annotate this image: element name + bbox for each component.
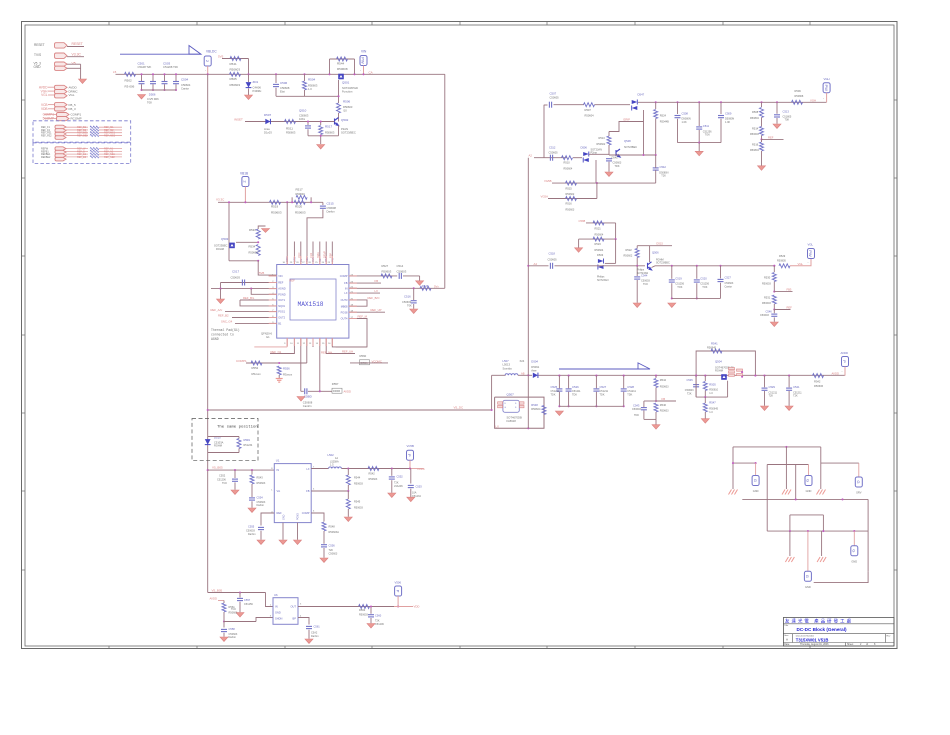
wire pin16 (332, 338, 367, 347)
capacitor C511 (696, 127, 702, 129)
wire A4 to Q506 (598, 265, 646, 267)
svg-text:Elat: Elat (280, 89, 285, 93)
wire R545 top (347, 491, 349, 499)
svg-text:A4: A4 (534, 262, 538, 266)
ground (817, 557, 826, 562)
node junction (785, 446, 787, 448)
ground (231, 490, 239, 495)
transistor Q502 (335, 118, 339, 126)
node junction (795, 498, 797, 500)
svg-text:C516: C516 (404, 295, 411, 299)
svg-text:R5xxxx: R5xxxx (283, 372, 293, 376)
wire to U503 IN (266, 593, 274, 607)
svg-text:Q504: Q504 (715, 360, 722, 364)
pin stub (269, 305, 277, 307)
wire ref (66, 148, 89, 150)
node junction (228, 201, 230, 203)
wire 5COMP (44, 117, 57, 119)
svg-text:C555: C555 (248, 525, 255, 529)
svg-text:R541: R541 (230, 62, 238, 66)
wire R508-R514 (761, 118, 763, 127)
svg-text:MAX1518: MAX1518 (298, 301, 324, 308)
wire c543 link (644, 400, 656, 402)
svg-text:R544: R544 (660, 378, 667, 382)
node junction (615, 238, 617, 240)
wire VGH (48, 90, 55, 92)
resistor R544 (337, 57, 348, 61)
pin stub (269, 288, 277, 290)
svg-text:GND: GND (806, 489, 812, 493)
pin stub (349, 318, 357, 320)
svg-text:Q510: Q510 (299, 109, 307, 113)
wire cap bottom (568, 392, 570, 407)
capacitor C50141 (139, 82, 145, 84)
wire C513 top (776, 102, 778, 114)
svg-text:R514: R514 (752, 126, 759, 130)
wire R544 top (655, 376, 657, 378)
svg-text:Cantor: Cantor (181, 86, 189, 90)
svg-text:C50605: C50605 (549, 151, 559, 155)
wire BP branch (298, 618, 309, 625)
power arrow (262, 229, 270, 233)
mosfet Q507 body (503, 400, 519, 412)
border tick (722, 646, 724, 649)
svg-text:C543: C543 (633, 404, 640, 408)
transistor Q506 (648, 262, 652, 270)
svg-text:5VB: 5VB (259, 271, 264, 275)
svg-text:C542: C542 (660, 165, 667, 169)
svg-text:The same position: The same position (217, 424, 258, 429)
svg-text:REF_B/O: REF_B/O (368, 296, 381, 300)
svg-text:R552: R552 (252, 366, 259, 370)
node junction (223, 620, 225, 622)
svg-text:TDK: TDK (600, 393, 605, 396)
transistor Q503 (229, 243, 235, 249)
wire R546 bottom (655, 412, 657, 419)
svg-text:OUT1: OUT1 (278, 298, 285, 302)
wire ref (66, 134, 89, 136)
capacitor C554 (249, 498, 255, 500)
wire R522 top (636, 246, 638, 249)
ground (407, 497, 415, 502)
svg-text:FB: FB (375, 279, 379, 283)
wire C527 top (720, 266, 722, 279)
pin stub (269, 288, 277, 290)
svg-text:C517: C517 (232, 270, 240, 274)
svg-text:TDK: TDK (551, 393, 556, 396)
resistor R502 (125, 72, 136, 76)
wire R513 bottom (608, 145, 610, 155)
wire D506 down (595, 160, 597, 183)
svg-text:R50606: R50606 (814, 384, 824, 388)
wire port stub (409, 460, 411, 468)
svg-text:R50603: R50603 (660, 410, 669, 413)
svg-text:R505: R505 (230, 77, 238, 81)
wire cap bottom (696, 283, 698, 298)
svg-text:INSET: INSET (234, 118, 243, 122)
resistor R571 (90, 150, 99, 152)
svg-text:Q502: Q502 (341, 118, 349, 122)
svg-text:C508: C508 (682, 111, 689, 115)
svg-text:V5_B05: V5_B05 (212, 466, 223, 470)
svg-text:COMP: COMP (340, 274, 348, 278)
pin stub (312, 256, 314, 265)
wire C552 top (234, 470, 236, 478)
capacitor C544 (634, 277, 640, 279)
wire port stub (844, 367, 846, 376)
svg-text:PW: PW (361, 57, 366, 64)
resistor R504 (303, 81, 307, 90)
node junction (655, 375, 657, 377)
wire port stub (790, 258, 811, 265)
capacitor C550 (305, 388, 307, 394)
svg-text:REF: REF (278, 281, 284, 285)
border tick (894, 99, 898, 101)
svg-text:C509: C509 (725, 111, 732, 115)
wire R516 bottom (761, 151, 763, 166)
wire port stub (363, 66, 365, 75)
wire R504 top (304, 74, 306, 81)
svg-text:C50603: C50603 (329, 552, 338, 555)
svg-text:R50603: R50603 (750, 133, 759, 136)
svg-text:L502: L502 (328, 453, 335, 457)
svg-text:R50603: R50603 (271, 211, 282, 215)
wire c543 top (643, 401, 645, 407)
wire R531 bottom (773, 304, 775, 310)
svg-text:FB: FB (306, 489, 310, 493)
svg-text:L5: L5 (113, 70, 117, 74)
svg-text:R509: R509 (795, 89, 802, 93)
wire R524 bottom (655, 119, 657, 156)
resistor R516c (566, 197, 577, 201)
svg-text:PGND: PGND (278, 292, 286, 296)
wire R544 left (329, 59, 331, 74)
wire reset (67, 46, 84, 48)
capacitor C507 (549, 102, 551, 108)
wire C515 top (322, 202, 324, 205)
wire c507 to R507 (554, 104, 585, 106)
wire C556 bottom (323, 548, 325, 558)
svg-text:D506: D506 (149, 93, 156, 97)
wire v mid (795, 465, 797, 500)
svg-text:R561: R561 (229, 605, 236, 609)
svg-text:Q501: Q501 (342, 81, 350, 85)
resistor R570 (90, 147, 99, 149)
node junction (319, 390, 321, 392)
svg-text:Sumida: Sumida (503, 366, 513, 370)
wire ref (66, 132, 89, 134)
node junction (527, 374, 529, 376)
title block divider (885, 634, 887, 643)
ground (388, 493, 396, 498)
svg-text:SHDN: SHDN (275, 617, 282, 621)
svg-text:X24: X24 (520, 359, 525, 363)
resistor R524 (654, 110, 658, 119)
svg-text:SNC_G4: SNC_G4 (221, 319, 233, 323)
dashed group box 1 (33, 121, 131, 142)
ground (633, 303, 641, 308)
svg-text:G: G (753, 479, 758, 482)
wire R513 top (608, 132, 610, 137)
wire cap top (720, 102, 722, 114)
title block row line (783, 623, 894, 625)
pin stub (349, 318, 357, 320)
resistor R506 (337, 103, 341, 113)
wire top pin stub 26 (312, 242, 314, 257)
wire Q503 bottom (229, 260, 258, 262)
wire gnd stub (578, 239, 580, 247)
resistor R527 (381, 274, 392, 278)
node junction (370, 605, 372, 607)
node junction (676, 101, 678, 103)
resistor R533 (256, 229, 260, 239)
svg-text:SOT23/BBC: SOT23/BBC (656, 262, 670, 265)
wire cap bottom (595, 392, 597, 407)
svg-text:1.0: 1.0 (709, 392, 713, 395)
svg-text:C512: C512 (549, 146, 556, 150)
wire vcomc (350, 362, 388, 364)
wire cap bottom (671, 283, 673, 298)
wire R548b bottom (323, 531, 325, 544)
node junction (278, 362, 280, 364)
capacitor C541 (786, 388, 792, 390)
svg-text:10Kx: 10Kx (299, 117, 306, 121)
pin stub (300, 338, 302, 346)
resistor R573 (90, 156, 99, 158)
wire cap top (623, 376, 625, 389)
svg-text:Awe: Awe (531, 369, 537, 373)
node junction (247, 73, 249, 75)
wire C510 top (307, 122, 309, 126)
svg-text:DC-DC Block (General): DC-DC Block (General) (797, 627, 847, 632)
pin stub (319, 338, 321, 346)
wire COMP row (349, 275, 397, 277)
wire port stub (807, 531, 809, 571)
pin stub (349, 311, 357, 313)
capacitor C50164 (162, 82, 168, 84)
node junction (754, 375, 756, 377)
resistor R511 (285, 120, 296, 124)
wire ref out (99, 129, 122, 131)
svg-text:LX: LX (344, 291, 347, 295)
svg-text:友達光電 產品研發工處: 友達光電 產品研發工處 (785, 618, 852, 625)
svg-text:R541: R541 (711, 342, 718, 346)
svg-text:ERIP: ERIP (624, 117, 631, 121)
svg-text:REF: REF (289, 279, 295, 283)
svg-text:connected to: connected to (211, 332, 234, 336)
svg-text:R544: R544 (337, 62, 345, 66)
capacitor C555 (258, 527, 264, 529)
node junction (807, 530, 809, 532)
wire gnd stub (320, 136, 322, 144)
pin stub (349, 299, 357, 301)
svg-text:VGH: VGH (824, 77, 830, 81)
node junction (720, 101, 722, 103)
node junction (595, 375, 597, 377)
wire v6a (789, 515, 791, 531)
svg-text:REF_B/L: REF_B/L (243, 296, 255, 300)
wire cap bottom (764, 391, 766, 406)
title block divider (792, 634, 794, 643)
pin stub (293, 338, 295, 346)
capacitor C50176 (173, 82, 179, 84)
diode D507 (265, 119, 270, 124)
svg-text:C545: C545 (687, 378, 694, 382)
wire POS8 stub (349, 311, 385, 313)
svg-text:VG5A: VG5A (541, 194, 549, 198)
resistor R544c (346, 475, 350, 485)
svg-text:R50603: R50603 (295, 211, 306, 215)
svg-text:R50805: R50805 (777, 260, 786, 263)
wire R506 to Q502 (338, 113, 340, 122)
svg-text:ZD1: ZD1 (253, 80, 259, 84)
svg-text:TCK: TCK (643, 283, 648, 286)
svg-text:TDK: TDK (572, 393, 577, 396)
wire pin11 long (300, 338, 302, 391)
wire FB row (311, 490, 348, 492)
wire COMP1 (44, 113, 57, 115)
wire C506 bottom (275, 88, 277, 97)
wire C516 bottom (413, 304, 415, 309)
svg-text:C558: C558 (229, 627, 236, 631)
wire erip (609, 122, 644, 132)
wire vcfb stub (410, 468, 423, 470)
wire C553 top (410, 469, 412, 484)
wire L507 to D504 (518, 374, 532, 376)
wire R521 down (615, 223, 617, 239)
svg-text:D504: D504 (531, 360, 538, 364)
svg-text:V506: V506 (395, 581, 402, 585)
wire Q502 emitter (338, 126, 340, 136)
resistor R526 (420, 286, 431, 290)
svg-text:T2K: T2K (769, 395, 774, 398)
wire pin15 (326, 338, 355, 353)
wire pin12 (306, 338, 308, 363)
svg-text:C514: C514 (397, 264, 404, 268)
pin stub (331, 256, 333, 265)
pin stub (319, 256, 321, 265)
wire C558 top (223, 622, 225, 628)
node junction (244, 201, 246, 203)
node junction (568, 375, 570, 377)
node junction (527, 265, 529, 267)
connector J power pins (55, 85, 68, 98)
wire ref out (99, 148, 122, 150)
inductor L507 (505, 374, 518, 376)
svg-text:OUT4: OUT4 (341, 317, 348, 321)
node junction (175, 73, 177, 75)
svg-text:V5: V5 (72, 62, 76, 66)
wire R561 top (223, 601, 225, 604)
node junction (251, 469, 253, 471)
pin stub (269, 299, 277, 301)
connector J fb pins (55, 103, 68, 111)
wire to VIN pin (258, 261, 277, 275)
resistor R560 (90, 126, 99, 128)
boxed ref label (332, 388, 342, 393)
node junction (527, 427, 529, 429)
ground (217, 299, 225, 304)
wire cluster top (733, 446, 821, 448)
svg-text:R548: R548 (531, 403, 538, 407)
ground (652, 425, 660, 430)
wire r549 top (238, 437, 240, 439)
node junction (152, 73, 154, 75)
wire cap top (677, 102, 679, 114)
capacitor C557 (237, 598, 243, 600)
diode D510 (205, 439, 211, 445)
node junction (362, 73, 364, 75)
wire main VBLDC rail (116, 73, 445, 75)
node junction (719, 265, 721, 267)
svg-text:R527: R527 (382, 264, 389, 268)
node junction (822, 530, 824, 532)
ground (817, 490, 826, 495)
svg-text:R508: R508 (752, 110, 759, 114)
wire top pin stub 23 (331, 242, 333, 257)
capacitor C526 (566, 389, 572, 391)
svg-text:TOK: TOK (705, 134, 710, 137)
wire ZD1 gnd (248, 88, 250, 95)
svg-text:Q506: Q506 (652, 251, 659, 255)
wire GND stub (282, 523, 284, 540)
svg-text:VDB: VDB (41, 107, 48, 111)
svg-text:T2K: T2K (793, 395, 798, 398)
connector J ref1 pins (55, 125, 66, 139)
pin stub (349, 282, 357, 284)
border tick (371, 646, 373, 649)
svg-text:C50603: C50603 (397, 270, 407, 274)
node junction (152, 89, 154, 91)
node junction (568, 405, 570, 407)
wire C542 top (655, 155, 657, 168)
ground earth (276, 379, 283, 383)
signal flow arrow 2 (559, 363, 650, 369)
svg-text:SOT23/BEC: SOT23/BEC (341, 131, 356, 135)
port GND C (855, 477, 862, 487)
wire Q504 source row (696, 396, 728, 398)
border tick (371, 22, 373, 26)
ground (236, 613, 244, 618)
regulator U503 box (273, 598, 298, 625)
svg-text:OUT: OUT (291, 605, 297, 609)
wire C510 bottom (307, 129, 309, 136)
wire AGND row (211, 288, 277, 290)
wire R547 bottom (704, 412, 706, 419)
svg-text:G: G (852, 549, 857, 552)
wire port stub (397, 596, 399, 607)
svg-text:G1: G1 (266, 335, 270, 339)
wire v6b (822, 515, 824, 531)
node junction (695, 375, 697, 377)
svg-text:Q507: Q507 (507, 392, 515, 396)
wire C542 bottom (655, 170, 657, 183)
wire C548 top (773, 310, 775, 314)
resistor R505b (703, 382, 707, 391)
wire ref stub (774, 309, 790, 311)
wire OUT4 loop (336, 319, 367, 347)
svg-text:FB: FB (662, 397, 666, 401)
svg-text:LX: LX (375, 289, 379, 293)
wire VGH rail (638, 101, 827, 103)
wire ref out (99, 156, 122, 158)
port VGL (808, 249, 815, 259)
svg-text:C546: C546 (766, 310, 773, 314)
capacitor C519 (669, 280, 675, 282)
svg-text:SOT23BEC: SOT23BEC (624, 146, 637, 149)
wire right vertical rail (444, 74, 446, 288)
node junction (558, 405, 560, 407)
